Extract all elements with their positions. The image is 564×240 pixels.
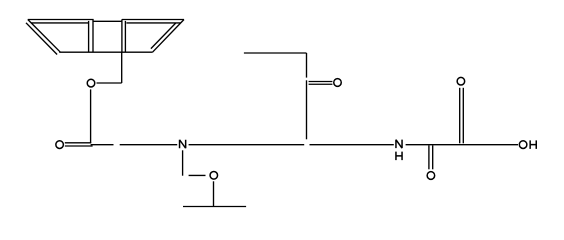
double bond C1=O (upper line) <box>65 142 91 144</box>
bond ethyl CH3 to CH2 <box>244 52 307 54</box>
fluorene left ring top bond (double, outer line) <box>28 19 94 21</box>
fluorene right ring slanted bond (double, inner line) <box>151 23 176 49</box>
atom label amide H <box>396 152 402 161</box>
chain bond Ca to C <box>310 144 394 146</box>
bond ketone C2 to Ca <box>306 80 308 139</box>
atom label amide O <box>427 172 435 180</box>
chain bond N to carboxyl end <box>406 144 518 146</box>
atom label amide N <box>396 140 402 149</box>
atom label hydroxyl O <box>519 141 527 149</box>
double bond C2=O (lower line) <box>309 83 333 85</box>
fluorene left ring right edge double bond inner line <box>88 21 90 52</box>
bond CH2 to ester O <box>97 82 122 84</box>
atom label ketone O <box>334 79 342 87</box>
atom label carboxyl O <box>457 77 465 85</box>
atom label N <box>180 140 186 149</box>
fluorene left ring / central ring shared edge <box>92 19 94 52</box>
bond CH2 to ketone C2 <box>306 53 308 78</box>
fluorene left ring slanted bond (double, inner line) <box>26 23 57 55</box>
atom label carbamate O <box>56 141 64 149</box>
chain bond C1 to C <box>91 144 114 146</box>
double bond C1=O (lower line) <box>65 145 93 147</box>
bond CH methyls <box>183 206 246 208</box>
bond ester O to carbonyl C1 <box>90 89 92 143</box>
fluorene right ring top bond (double, outer line) <box>122 19 184 21</box>
atom label ester O <box>87 79 95 87</box>
fluorene bottom bond <box>59 51 152 53</box>
fluorene central ring / right ring shared edge <box>121 19 123 52</box>
atom label ether O <box>210 171 218 179</box>
bond ether O to CH <box>213 181 215 206</box>
bond fluorene C9 to CH2 <box>121 52 123 83</box>
fluorene left ring top bond (double, inner line) <box>31 22 89 24</box>
double bond amide C=O (right line) <box>432 145 434 169</box>
double bond carboxyl C=O (left line) <box>459 88 461 144</box>
fluorene right ring slanted bond (double, outer line) <box>152 20 184 53</box>
atom label hydroxyl H <box>530 140 536 149</box>
chain bond N to Ca <box>189 144 305 146</box>
chain bond C to N <box>120 144 178 146</box>
bond CH2a to ether O <box>189 174 206 176</box>
double bond carboxyl C=O (right line) <box>462 88 464 144</box>
bond N to CH2a <box>182 150 184 175</box>
double bond amide C=O (left line) <box>428 145 430 169</box>
fluorene right ring top bond (double, inner line) <box>126 22 180 24</box>
fluorene right ring left edge double bond inner line <box>124 21 126 52</box>
fluorene central ring top bond <box>93 20 122 22</box>
double bond C2=O (upper line) <box>309 81 333 83</box>
fluorene left ring slanted bond (double, outer line) <box>28 20 61 53</box>
